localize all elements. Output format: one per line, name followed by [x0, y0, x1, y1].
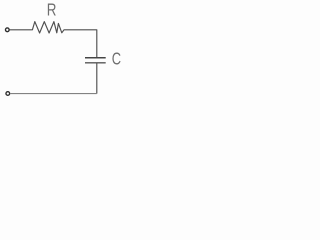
svg-text:R: R — [47, 1, 57, 20]
svg-text:C: C — [112, 50, 121, 69]
